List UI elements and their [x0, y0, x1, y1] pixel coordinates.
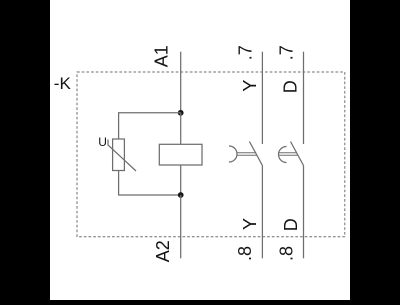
wire: A2 lead	[180, 195, 182, 258]
wire: top branch to varistor	[119, 113, 181, 139]
contact 2 delay symbol (half circle open right)	[279, 147, 287, 163]
relay outline box -K (dashed)	[77, 72, 345, 237]
svg-text:.8: .8	[235, 246, 255, 261]
wire: contact 2 bottom terminal	[303, 166, 305, 259]
svg-text:Y: Y	[240, 80, 260, 92]
varistor diagonal with stub	[108, 140, 136, 172]
svg-text:Y: Y	[240, 218, 260, 230]
svg-text:A2: A2	[153, 240, 173, 262]
node: top junction	[178, 110, 184, 116]
contact 1 delay symbol (half circle open left)	[229, 146, 237, 162]
svg-text:-K: -K	[54, 74, 72, 93]
wire: contact 1 bottom terminal	[261, 166, 263, 259]
varistor (rectangle body)	[113, 139, 125, 171]
contact 2 moving blade	[291, 142, 304, 166]
contact 2 delay linkage (double line)	[279, 152, 297, 154]
node: bottom junction	[178, 192, 184, 198]
wire: junction to coil top	[180, 113, 182, 145]
svg-text:A1: A1	[152, 45, 172, 67]
svg-text:D: D	[280, 80, 300, 93]
wire: contact 1 top terminal	[261, 52, 263, 144]
svg-text:.8: .8	[276, 246, 296, 261]
svg-text:.7: .7	[236, 45, 256, 60]
svg-text:U: U	[98, 135, 107, 149]
wire: varistor bottom to bottom branch	[119, 171, 181, 196]
contact 1 delay linkage (double line)	[237, 152, 256, 154]
wire: A1 lead	[180, 52, 182, 113]
svg-text:D: D	[281, 218, 301, 231]
wire: coil bottom to junction	[180, 165, 182, 195]
contact 1 moving blade	[249, 142, 262, 166]
svg-text:.7: .7	[277, 45, 297, 60]
coil K (rectangle)	[159, 144, 202, 165]
wire: contact 2 top terminal	[303, 52, 305, 144]
